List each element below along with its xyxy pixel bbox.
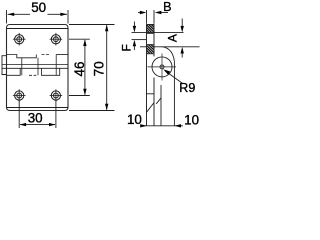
knuckle circle R9 xyxy=(152,57,172,77)
R9 label and leader xyxy=(163,69,182,83)
pin circle xyxy=(160,65,164,69)
svg-text:A: A xyxy=(165,34,179,42)
knuckle band xyxy=(2,55,68,76)
side view bar xyxy=(147,25,155,126)
centerline vertical xyxy=(161,54,163,81)
break slash 1 xyxy=(147,103,155,113)
hole top-right xyxy=(50,33,63,46)
dimension B xyxy=(138,10,168,24)
hatch block 2 xyxy=(147,45,155,54)
bar tick xyxy=(147,93,155,95)
svg-text:B: B xyxy=(163,0,171,14)
dimension 30 xyxy=(19,101,56,129)
inner vertical xyxy=(160,85,162,126)
svg-text:50: 50 xyxy=(31,0,46,15)
hem line bottom xyxy=(7,107,69,109)
centerline horizontal xyxy=(148,66,177,68)
knuckle tab left xyxy=(2,56,7,75)
hem line top xyxy=(7,28,69,30)
break slash 2 xyxy=(156,98,161,104)
hole bottom-right xyxy=(50,89,63,102)
bottom line with 10/10 dims xyxy=(140,124,183,127)
svg-text:10: 10 xyxy=(184,113,199,128)
hole bottom-left xyxy=(13,89,26,102)
dimension 50 xyxy=(7,10,69,24)
svg-text:70: 70 xyxy=(91,61,106,76)
right leaf vertical xyxy=(173,62,175,126)
dimension F xyxy=(132,22,147,51)
svg-text:R9: R9 xyxy=(179,81,195,95)
svg-text:30: 30 xyxy=(28,110,43,125)
wrap curve to right leaf xyxy=(163,47,175,62)
hole top-left xyxy=(13,33,26,46)
plate outline front view xyxy=(7,25,69,111)
dimension A xyxy=(132,19,200,58)
hatch block 1 xyxy=(147,25,155,34)
dimension 70 xyxy=(69,25,115,111)
svg-text:F: F xyxy=(120,44,134,51)
svg-text:10: 10 xyxy=(127,112,142,127)
svg-text:46: 46 xyxy=(72,62,87,77)
dimension 46 xyxy=(69,39,90,95)
